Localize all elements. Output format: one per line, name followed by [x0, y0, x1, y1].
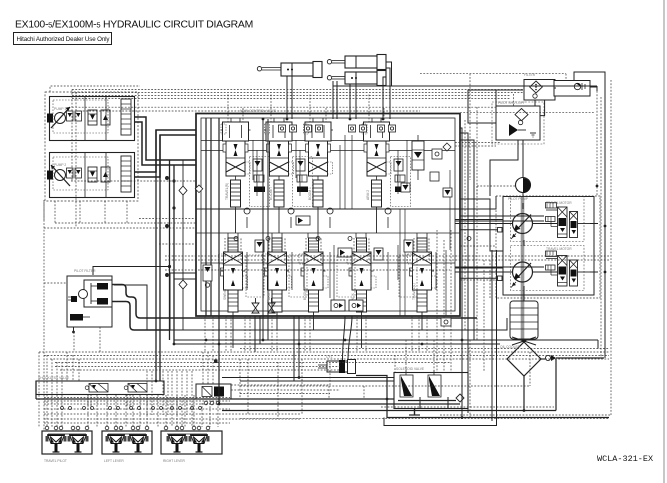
- ports group3: [164, 426, 168, 430]
- svg-text:BUCKET: BUCKET: [269, 187, 273, 200]
- check valve LC4: [385, 208, 391, 214]
- svg-text:CYL: CYL: [326, 355, 333, 359]
- wire: center joint to cooler: [523, 240, 525, 342]
- port relief valve PR2: [349, 300, 363, 311]
- port A4: [378, 125, 385, 132]
- regulator valve P2b: [101, 167, 110, 182]
- pilot filter diamond: [530, 81, 543, 93]
- pump unit outer dashed frame: [45, 92, 138, 201]
- pilot filter unit box: [524, 80, 555, 101]
- valve feed verticals bottom row: [228, 233, 427, 238]
- inter-valve plumbing verticals: [247, 135, 450, 316]
- wire: right bus verticals: [384, 128, 497, 426]
- shockless valve manifold bar: [36, 381, 164, 395]
- servo piston P1: [121, 99, 131, 135]
- control valve outer boundary: [196, 114, 460, 317]
- svg-text:WCLA-321-EX: WCLA-321-EX: [597, 454, 653, 464]
- pilot valve group 3 (right lever): [161, 426, 222, 454]
- pilot box around travel motors: [496, 196, 600, 298]
- port A2: [305, 125, 312, 132]
- port circle row above pilot mesh bottom: [61, 407, 202, 410]
- solenoid unit check diamond: [456, 394, 464, 402]
- wire: travel cylinder feed: [343, 316, 353, 360]
- pump P2 circle: [55, 170, 66, 181]
- pilot bundle lower G: [39, 351, 609, 353]
- pilot mesh verticals 2: [146, 371, 148, 415]
- svg-text:MAIN CONTROL VALVE: MAIN CONTROL VALVE: [240, 109, 277, 113]
- spool valve: travel left (bottom row 5): [408, 238, 437, 312]
- port B1: [290, 125, 297, 132]
- pilot check valve lower: [97, 298, 108, 305]
- P2 section dividers: [84, 153, 86, 197]
- pilot valve 3R: [189, 435, 210, 452]
- travel pilot select box: [196, 384, 231, 405]
- compensator group between V2-V3: [293, 157, 313, 207]
- extra mesh rows: [44, 395, 230, 409]
- pump P1 internals: [47, 97, 131, 140]
- wire: boom lines down center: [255, 119, 268, 352]
- svg-text:TRAVEL PILOT: TRAVEL PILOT: [44, 459, 67, 463]
- aux check right of main relief: [432, 143, 451, 159]
- svg-text:TRAVEL(L): TRAVEL(L): [412, 283, 416, 300]
- travel motor right assembly: [498, 197, 591, 242]
- pump P1 swash sensors: [67, 111, 74, 121]
- select box ports: [204, 401, 208, 405]
- travel speed cylinder: [318, 360, 356, 374]
- spool valve: boom 1 (top row 3): [303, 122, 333, 207]
- svg-text:PUMP 2: PUMP 2: [54, 163, 66, 167]
- travel motor right circle: [513, 214, 533, 234]
- supply line A in block: [205, 118, 207, 316]
- pilot bundle top A: [72, 89, 523, 91]
- pilot mesh horizontals: [44, 403, 230, 405]
- svg-text:OIL COOLER: OIL COOLER: [500, 345, 521, 349]
- spool valve: swing (bottom row 1): [219, 238, 248, 312]
- pilot verticals right of block: [464, 120, 466, 330]
- load check valve row (between valve rows): [244, 208, 391, 228]
- svg-text:BOOM 2: BOOM 2: [303, 287, 307, 300]
- travel motor left circle: [513, 262, 533, 282]
- oil cooler: [507, 342, 541, 376]
- svg-text:SHOCKLESS VALVE: SHOCKLESS VALVE: [38, 376, 70, 380]
- pilot drops to valve caps top row: [227, 95, 229, 123]
- cylinder: boom: [257, 62, 322, 78]
- inner dashed box P2: [53, 157, 108, 190]
- junction dot J2: [172, 206, 175, 209]
- supply line B in block: [210, 118, 212, 316]
- pilot vertical left risers: [71, 90, 73, 182]
- port A1: [279, 125, 286, 132]
- pilot filter circle: [79, 290, 88, 299]
- pilot valve 3L: [167, 435, 188, 452]
- svg-text:TRAVEL(R): TRAVEL(R): [225, 183, 229, 200]
- svg-text:Hitachi Authorized Dealer Use: Hitachi Authorized Dealer Use Only: [17, 36, 111, 43]
- small square mid right: [401, 183, 410, 192]
- port B2: [316, 125, 323, 132]
- solenoid valve unit: [394, 370, 468, 409]
- wire: return bus: [36, 316, 609, 418]
- svg-text:ARM 1: ARM 1: [267, 290, 271, 300]
- svg-text:PILOT PUMP: PILOT PUMP: [508, 197, 529, 201]
- wire: P2 delivery to valve block: [134, 130, 196, 177]
- pilot valve 2R: [128, 435, 149, 452]
- main relief valve (narrow, right of V4): [412, 135, 424, 180]
- travel brake valve right: [511, 197, 591, 242]
- spool valve: arm 1 (bottom row 2): [263, 238, 292, 312]
- shut-off filter diamond: [515, 109, 528, 121]
- inner dashed box P1: [53, 100, 108, 133]
- port relief valve PR1: [331, 300, 345, 311]
- wire: pilot supply S-path lower: [112, 302, 170, 331]
- pump P2 drive shaft: [47, 171, 53, 180]
- page right edge shading: [663, 0, 665, 483]
- travel brake valve left: [511, 246, 591, 291]
- svg-text:PILOT FILTER: PILOT FILTER: [74, 269, 96, 273]
- ports group1: [45, 426, 49, 430]
- return gallery line: [218, 118, 220, 316]
- orifice diamond D2: [179, 280, 187, 289]
- wire: pilot supply S-path upper: [112, 285, 477, 319]
- check valve LC1: [244, 208, 250, 214]
- spool valve: travel right (top row 1): [221, 122, 251, 207]
- check valve LC3: [327, 208, 333, 214]
- spool valve: bucket (top row 2): [264, 122, 294, 207]
- spool valve: arm 2 (top row 4): [362, 122, 392, 207]
- compensator group beside V4: [391, 157, 411, 207]
- small component x375 y250: [374, 248, 383, 260]
- wire: swing lines down: [222, 316, 394, 381]
- pump P2 swash sensors: [67, 168, 74, 178]
- pilot drops bundle to bottom mesh: [239, 359, 241, 399]
- pilot valve group 2 (left lever): [102, 426, 152, 454]
- spool valve: auxiliary (bottom row 4): [347, 238, 376, 312]
- pilot solenoid horizontal: [70, 314, 83, 321]
- check valve LC2: [288, 208, 294, 214]
- wire: cylinder lines to top right: [333, 62, 605, 358]
- supply rails across block: [201, 140, 455, 142]
- pilot filter unit: [67, 276, 112, 333]
- pilot horizontals right mid: [460, 245, 496, 247]
- motor right port square: [498, 228, 503, 233]
- pump P1 housing: [50, 97, 135, 141]
- pilot row mid: [165, 255, 609, 257]
- pilot left trunk: [43, 200, 45, 430]
- pilot right frame: [610, 80, 612, 415]
- distribution line mid: [196, 208, 460, 210]
- pilot riser bundle right of manifold: [231, 362, 330, 385]
- port A3: [349, 125, 356, 132]
- relief valve triangle: [509, 124, 518, 136]
- internal lines: [90, 283, 92, 304]
- pilot under pump boxes: [54, 201, 56, 223]
- svg-text:TRAVEL MOTOR: TRAVEL MOTOR: [546, 201, 572, 205]
- compensator beside V1: [203, 265, 212, 287]
- tank symbol below solenoid unit: [409, 409, 420, 415]
- cylinder: arm: [327, 55, 386, 70]
- wire: pump lines down to bottom bus: [156, 130, 174, 381]
- wire: long work lines mid: [170, 273, 507, 344]
- wire: bucket cylinder lines: [383, 86, 390, 120]
- pilot drops below block: [204, 316, 206, 352]
- wire: pilot pump suction: [468, 88, 556, 209]
- port circles under top-row valves: [234, 237, 471, 241]
- svg-text:LEFT LEVER: LEFT LEVER: [104, 459, 124, 463]
- wire: pilot box suction: [93, 267, 170, 331]
- pilot check valve upper: [97, 283, 108, 290]
- wire: valve drains to bus: [233, 207, 422, 348]
- pilot lines pump regulators: [44, 86, 140, 220]
- compensator group between V1-V2: [250, 157, 270, 207]
- svg-text:FILTER: FILTER: [524, 73, 536, 77]
- svg-text:PILOT SHUT-OFF: PILOT SHUT-OFF: [498, 101, 525, 105]
- valve internal verticals top row: [231, 118, 381, 122]
- solenoid valve SG: [428, 375, 441, 397]
- wire: valve block to travel motors: [455, 196, 598, 278]
- servo piston P2: [121, 156, 131, 192]
- wire: boom cylinder lines: [286, 76, 288, 119]
- pilot relief small: [71, 296, 77, 302]
- P1 section dividers: [84, 97, 86, 140]
- wire: arm cylinder lines: [349, 84, 351, 119]
- return gray band through motors: [521, 197, 525, 342]
- bypass check valve: [545, 355, 556, 361]
- junction dots row: [155, 118, 607, 419]
- orifice diamond D1: [179, 186, 187, 195]
- anti-cavitation valve AC1: [252, 298, 259, 313]
- small valve right of B3: [338, 248, 352, 257]
- small valve right of B2: [296, 216, 310, 225]
- shockless valve 1: [89, 384, 108, 393]
- svg-text:EX100-5/EX100M-5 HYDRAULIC CIR: EX100-5/EX100M-5 HYDRAULIC CIRCUIT DIAGR…: [15, 20, 253, 31]
- svg-text:RIGHT LEVER: RIGHT LEVER: [163, 459, 186, 463]
- extra diamond on block edge: [195, 185, 203, 193]
- drain line left of block: [166, 160, 188, 330]
- pump P1 drive shaft: [47, 114, 53, 123]
- svg-text:SOLENOID VALVE: SOLENOID VALVE: [396, 367, 425, 371]
- oil cooler fan: [512, 337, 536, 345]
- regulator valve P2: [88, 167, 97, 182]
- travel motor left assembly: [498, 246, 591, 291]
- control valve inner boundary: [201, 118, 455, 311]
- svg-text:TRAVEL MOTOR: TRAVEL MOTOR: [546, 247, 572, 251]
- pump P1 circle: [55, 113, 66, 124]
- svg-text:AUX: AUX: [351, 292, 355, 300]
- small component below V2 gap: [255, 240, 264, 252]
- title text: [15, 20, 253, 31]
- pilot shut-off valve box: [492, 102, 544, 144]
- solenoid valve SC: [400, 375, 413, 397]
- anti-cavitation valve AC2: [268, 298, 275, 313]
- dashed sub-boxes bottom row: [246, 255, 417, 297]
- svg-text:ARM 2: ARM 2: [366, 190, 370, 200]
- shockless valve 2: [128, 384, 147, 393]
- pilot lines to solenoid unit: [436, 230, 438, 372]
- pump P2 housing: [50, 153, 135, 198]
- svg-text:SWING: SWING: [223, 288, 227, 300]
- wire: P1 delivery to valve block: [134, 117, 196, 165]
- pump P2 internals: [47, 153, 131, 197]
- wire: motor second lines: [455, 216, 544, 267]
- pilot fan to pedal groups: [38, 352, 40, 427]
- clutter right of V4 inside block: [404, 172, 452, 326]
- pilot pump suction line: [477, 185, 515, 187]
- junction dot J1: [172, 179, 175, 182]
- svg-text:PUMP 1: PUMP 1: [54, 107, 66, 111]
- pilot valve group 1 (travel pedals): [42, 426, 92, 454]
- drain stem: [73, 327, 75, 331]
- port B3: [360, 125, 367, 132]
- junction dots: [166, 225, 169, 228]
- pilot mesh verticals: [87, 395, 89, 427]
- pilot line row mid-left: [71, 180, 196, 182]
- pilot pump: [516, 166, 531, 203]
- pilot relief valve box: [554, 81, 590, 97]
- cylinder: bucket: [327, 71, 386, 86]
- tiny gray labels: [38, 73, 572, 463]
- dealer-use-only label box: [14, 33, 112, 45]
- travel device solid frame: [503, 197, 594, 296]
- regulator valve P1b: [101, 110, 110, 125]
- pilot valve 1R: [68, 435, 89, 452]
- regulator valve P1: [88, 110, 97, 125]
- port B4: [389, 125, 396, 132]
- spool valve: boom 2 (bottom row 3): [299, 238, 328, 312]
- pilot mesh extra rows: [55, 366, 340, 368]
- ports group2: [105, 426, 109, 430]
- wire: long bus y340: [174, 340, 598, 344]
- motor left port square: [498, 276, 503, 281]
- pilot bundle top B: [72, 106, 496, 108]
- svg-text:BOOM 1: BOOM 1: [308, 187, 312, 200]
- pilot drops to valve caps bottom row: [224, 238, 226, 256]
- pilot valve 2L: [106, 435, 127, 452]
- center joint: [510, 301, 538, 339]
- pilot valve 1L: [46, 435, 67, 452]
